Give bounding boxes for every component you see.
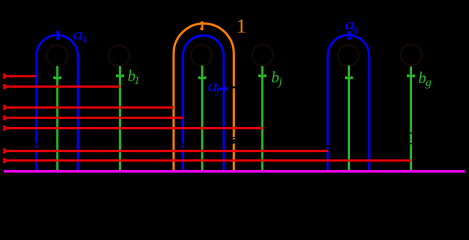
svg-text:1: 1 [236, 16, 246, 38]
svg-text:g: g [353, 23, 359, 35]
svg-text:1: 1 [82, 32, 88, 46]
svg-text:g: g [426, 75, 432, 89]
svg-text:1: 1 [134, 73, 140, 87]
